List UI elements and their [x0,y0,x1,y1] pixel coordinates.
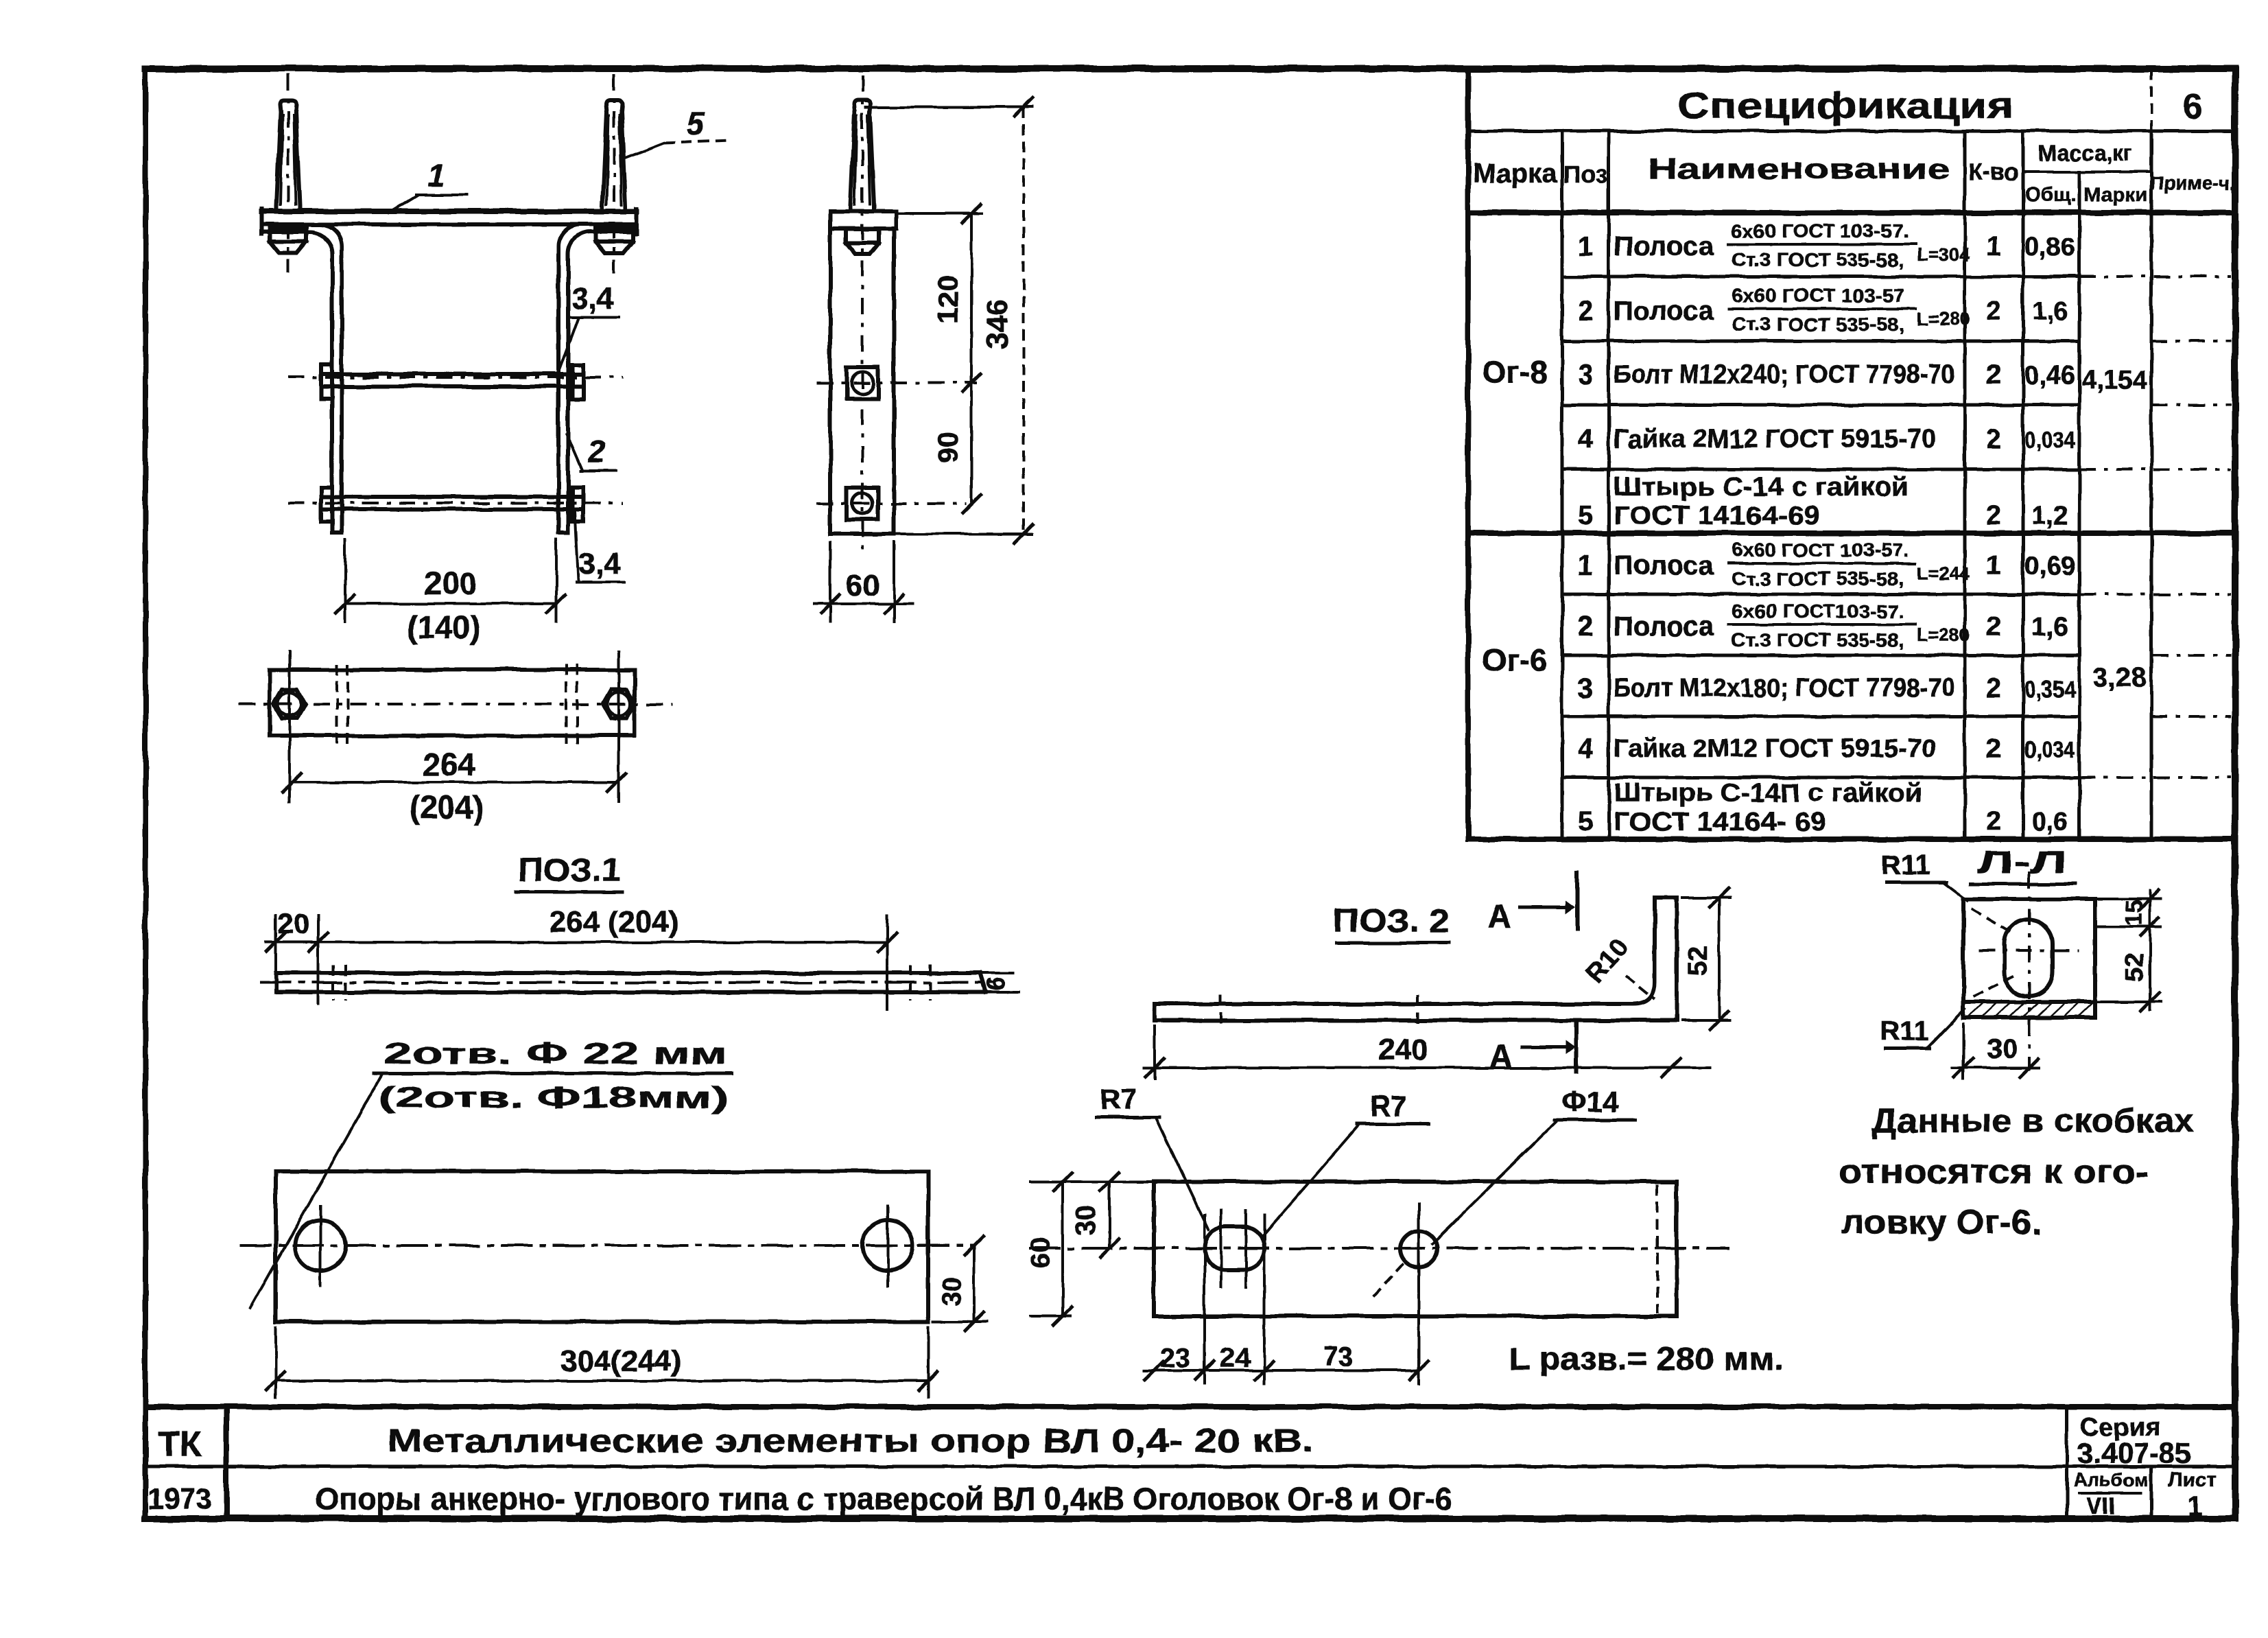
svg-text:ГОСТ 14164-69: ГОСТ 14164-69 [1614,502,1819,530]
svg-text:Гайка 2М12 ГОСТ 5915-70: Гайка 2М12 ГОСТ 5915-70 [1614,425,1936,454]
svg-text:15: 15 [2121,900,2147,926]
svg-text:2: 2 [1986,611,2001,642]
svg-text:ГОСТ 14164- 69: ГОСТ 14164- 69 [1614,808,1826,836]
svg-text:Общ.: Общ. [2024,184,2077,207]
svg-text:3,4: 3,4 [578,547,621,581]
svg-text:3,28: 3,28 [2093,662,2147,692]
svg-text:2: 2 [1986,734,2001,764]
svg-text:60: 60 [847,569,880,602]
svg-text:0,46: 0,46 [2024,361,2075,390]
svg-text:1: 1 [2188,1491,2203,1521]
svg-text:(140): (140) [407,609,480,645]
svg-text:Ст.3 ГОСТ 535-58,: Ст.3 ГОСТ 535-58, [1732,314,1904,335]
svg-text:2: 2 [1986,806,2001,836]
svg-text:1: 1 [1986,550,2001,581]
svg-text:1: 1 [427,158,445,194]
svg-text:1,6: 1,6 [2032,613,2068,642]
svg-text:Ог-6: Ог-6 [1482,642,1548,678]
svg-text:VII: VII [2086,1493,2115,1519]
svg-text:Полоса: Полоса [1614,296,1714,326]
svg-text:R11: R11 [1880,1016,1928,1046]
svg-text:0,034: 0,034 [2024,737,2075,763]
svg-text:Масса,кг: Масса,кг [2039,141,2133,165]
svg-text:60: 60 [1026,1238,1056,1269]
svg-text:1,6: 1,6 [2032,297,2068,326]
svg-text:240: 240 [1378,1033,1428,1066]
svg-text:L=304: L=304 [1917,244,1970,265]
svg-text:200: 200 [425,565,477,601]
svg-text:52: 52 [2121,953,2149,982]
svg-text:Поз: Поз [1563,160,1607,188]
svg-text:2: 2 [1986,360,2001,390]
svg-text:Наименование: Наименование [1648,152,1950,185]
svg-text:0,034: 0,034 [2024,428,2075,454]
svg-text:2: 2 [587,434,606,469]
svg-text:30: 30 [938,1277,967,1306]
svg-text:R11: R11 [1881,850,1930,880]
svg-text:ПОЗ. 2: ПОЗ. 2 [1333,903,1450,939]
svg-text:ПОЗ.1: ПОЗ.1 [518,852,621,889]
svg-text:L=280: L=280 [1917,309,1970,329]
svg-text:К-во: К-во [1968,159,2018,185]
svg-text:Ф14: Ф14 [1562,1086,1619,1118]
svg-text:5: 5 [687,106,705,141]
svg-text:ловку Ог-6.: ловку Ог-6. [1841,1203,2042,1241]
svg-text:4: 4 [1578,734,1594,764]
svg-text:(2отв. Ф18мм): (2отв. Ф18мм) [379,1081,729,1114]
svg-text:Ог-8: Ог-8 [1482,354,1548,390]
svg-text:Ст.3 ГОСТ 535-58,: Ст.3 ГОСТ 535-58, [1732,568,1904,589]
svg-text:Полоса: Полоса [1614,550,1714,581]
svg-text:Ст.3 ГОСТ 535-58,: Ст.3 ГОСТ 535-58, [1732,249,1904,270]
svg-text:1973: 1973 [147,1482,211,1514]
svg-text:относятся к ого-: относятся к ого- [1839,1152,2149,1191]
svg-text:Данные в скобках: Данные в скобках [1871,1101,2194,1140]
svg-text:4: 4 [1578,424,1594,454]
svg-text:1: 1 [1986,231,2001,261]
svg-text:1,2: 1,2 [2032,502,2068,530]
svg-text:1: 1 [1578,231,1593,261]
svg-text:3,4: 3,4 [571,282,614,316]
svg-text:2: 2 [1578,296,1593,326]
svg-text:Ст.3 ГОСТ 535-58,: Ст.3 ГОСТ 535-58, [1732,629,1904,651]
svg-text:5: 5 [1578,500,1593,530]
svg-text:0,354: 0,354 [2024,677,2075,703]
svg-text:3: 3 [1578,360,1593,390]
svg-text:2: 2 [1578,611,1593,642]
svg-text:6: 6 [2183,87,2202,126]
svg-text:30: 30 [1071,1205,1101,1236]
svg-text:52: 52 [1683,946,1713,976]
svg-text:3: 3 [1578,673,1593,703]
svg-text:2: 2 [1986,500,2001,530]
svg-text:3.407-85: 3.407-85 [2077,1437,2191,1469]
svg-text:6: 6 [982,977,1010,991]
svg-text:Лист: Лист [2169,1469,2217,1491]
svg-text:Спецификация: Спецификация [1677,85,2013,126]
svg-text:6х60 ГОСТ103-57.: 6х60 ГОСТ103-57. [1732,600,1904,622]
svg-text:0,69: 0,69 [2024,552,2075,581]
svg-text:0,6: 0,6 [2032,808,2068,836]
svg-text:R7: R7 [1370,1090,1407,1122]
svg-text:Металлические элементы опор: Металлические элементы опор ВЛ 0,4- 20 к… [388,1423,1314,1460]
svg-text:2: 2 [1986,424,2001,454]
svg-text:264 (204): 264 (204) [550,905,678,939]
svg-text:5: 5 [1578,806,1593,836]
svg-text:1: 1 [1578,550,1593,581]
svg-text:Гайка 2М12 ГОСТ 5915-70: Гайка 2М12 ГОСТ 5915-70 [1614,734,1936,763]
svg-text:2: 2 [1986,673,2001,703]
svg-text:264: 264 [423,747,475,782]
svg-text:346: 346 [980,299,1014,349]
svg-text:Болт М12х180; ГОСТ 7798-70: Болт М12х180; ГОСТ 7798-70 [1614,674,1955,703]
svg-text:L=244: L=244 [1917,563,1970,584]
svg-text:ТК: ТК [158,1425,202,1464]
svg-text:Полоса: Полоса [1614,611,1714,642]
svg-text:Опоры анкерно- углового типа: Опоры анкерно- углового типа с траверсой… [315,1481,1452,1517]
svg-text:Л-Л: Л-Л [1977,844,2066,880]
svg-text:120: 120 [932,275,964,323]
svg-text:6х60 ГОСТ 103-57.: 6х60 ГОСТ 103-57. [1732,220,1909,242]
svg-text:20: 20 [278,907,310,939]
svg-text:Марка: Марка [1473,159,1558,189]
svg-text:Марки: Марки [2083,184,2148,207]
svg-text:R7: R7 [1100,1083,1137,1115]
svg-text:24: 24 [1220,1343,1251,1373]
svg-text:Полоса: Полоса [1614,231,1714,261]
svg-text:L разв.= 280 мм.: L разв.= 280 мм. [1509,1341,1784,1377]
svg-text:90: 90 [932,432,964,464]
svg-text:А: А [1487,899,1511,935]
svg-text:6х60 ГОСТ 103-57.: 6х60 ГОСТ 103-57. [1732,539,1909,561]
svg-text:2отв. Ф 22 мм: 2отв. Ф 22 мм [384,1037,727,1070]
svg-text:А: А [1489,1039,1513,1075]
svg-text:Приме-ч.: Приме-ч. [2150,172,2235,194]
svg-text:6х60 ГОСТ 103-57: 6х60 ГОСТ 103-57 [1732,285,1904,306]
svg-text:2: 2 [1986,296,2001,326]
svg-text:(204): (204) [410,789,483,825]
svg-text:0,86: 0,86 [2024,233,2075,261]
svg-text:30: 30 [1987,1034,2018,1064]
svg-text:Альбом: Альбом [2073,1469,2149,1490]
svg-text:Штырь С-14П с гайкой: Штырь С-14П с гайкой [1614,779,1922,808]
svg-text:304(244): 304(244) [560,1344,681,1378]
svg-text:Штырь С-14 с гайкой: Штырь С-14 с гайкой [1614,473,1909,502]
svg-text:L=280: L=280 [1917,624,1970,645]
svg-text:4,154: 4,154 [2081,366,2147,395]
svg-text:Болт М12х240; ГОСТ 7798-70: Болт М12х240; ГОСТ 7798-70 [1614,360,1955,389]
svg-text:23: 23 [1160,1343,1191,1373]
svg-text:73: 73 [1323,1342,1354,1372]
